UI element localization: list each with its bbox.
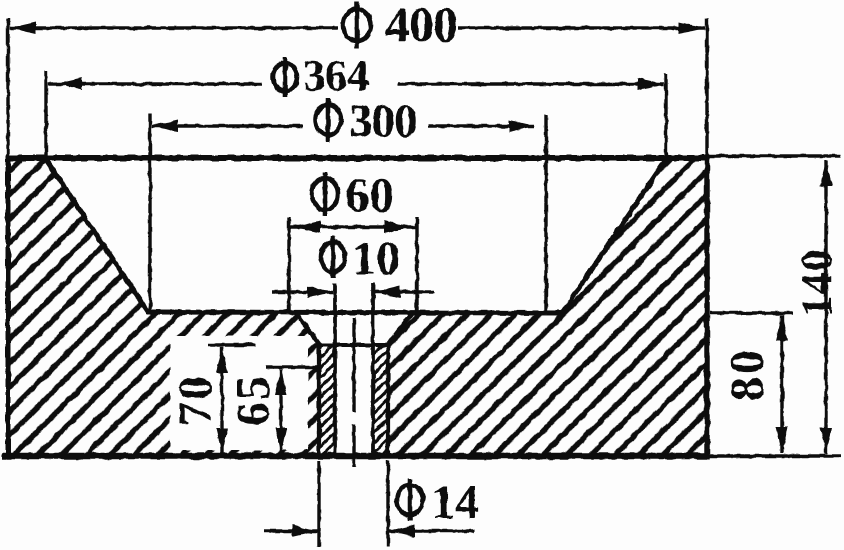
dimension line 140 [824,160,827,454]
bushing outer wall right (phi14 bore) [386,345,390,456]
label phi60 [312,178,338,210]
dimension line 70 [220,347,223,455]
arrowhead phi60 left [294,221,320,233]
counterbore funnel left slope [296,313,321,346]
dimension line 65 [279,369,282,455]
svg-text:300: 300 [349,95,417,147]
arrowhead phi364 right [638,78,664,90]
arrowhead phi10 left (points right) [307,286,333,298]
svg-text:60: 60 [345,167,394,222]
dimension line phi400 [10,26,338,29]
extension line 140/80 bottom (bottom surface extended) [707,454,841,457]
svg-text:65: 65 [227,374,280,426]
arrowhead 70 up [216,347,228,373]
arrowhead 140 up [820,160,832,186]
arrowhead 80 up [776,315,788,341]
label phi14 [397,485,423,515]
dimension line phi300 [152,124,303,127]
extension line phi364 right [664,73,667,158]
dimension line phi14 right part [389,529,474,532]
dimension line phi364 [48,82,262,85]
bushing outer wall left (phi14 bore) [317,345,321,456]
clearing around 70/65 dimensions [170,336,308,450]
svg-text:10: 10 [352,232,400,285]
cone wall right slope [562,158,667,313]
arrowhead phi400 right [679,22,705,34]
svg-text:14: 14 [431,476,479,529]
extension line phi60 right [415,217,418,313]
arrowhead phi14 right (points left) [389,525,415,537]
hatched cross-section left half [8,158,321,456]
extension line 140 top (top surface extended) [707,154,841,157]
svg-text:140: 140 [792,249,841,318]
arrowhead 65 down [275,428,287,454]
arrowhead phi364 left [56,78,82,90]
arrowhead phi10 right (points left) [374,286,400,298]
extension line phi60 left [287,217,290,313]
bushing top edge [318,343,389,347]
label phi10 [321,242,345,272]
reference tick for 70 [208,343,256,346]
cone floor (continuous across counterbore mouth) [146,312,564,313]
centerline upper segment [352,318,355,412]
arrowhead phi300 left [152,120,178,132]
svg-text:400: 400 [385,0,457,52]
svg-text:80: 80 [721,347,774,401]
svg-text:70: 70 [169,374,222,426]
dimension line phi14 left part [264,529,318,532]
dimension line phi10 right part [374,290,434,293]
extension line phi364 left [44,71,47,158]
part outline: top surface [6,155,707,161]
extension line phi400 right [705,18,708,158]
arrowhead phi300 right [509,120,535,132]
dimension line phi10 left part [272,290,333,293]
arrowhead 65 up [275,369,287,395]
centerline lower segment [352,424,355,467]
cone wall left slope [45,158,148,312]
bushing left wall dense hatch [320,346,334,456]
part outline: right edge [704,156,710,459]
dimension line phi60 [289,225,417,228]
label phi364 [273,63,297,91]
phi10 bore wall left / extension line [333,283,337,456]
label phi400 [343,9,371,41]
extension line phi14 right [386,461,389,547]
arrowhead 140 down [820,428,832,454]
label phi300 [315,105,341,135]
arrowhead 80 down [776,427,788,453]
extension line phi14 left [317,461,320,547]
svg-text:364: 364 [303,51,369,100]
extension line phi300 left [148,113,151,312]
extension line phi400 left [6,18,9,158]
arrowhead phi400 left [10,22,36,34]
arrowhead phi14 left (points right) [292,525,318,537]
counterbore funnel right slope [387,313,412,346]
bushing right wall dense hatch [374,346,387,456]
part outline: bottom surface [2,453,707,460]
extension line 80 top (cone floor extended) [710,311,793,314]
arrowhead phi60 right [384,221,410,233]
part outline: left edge [6,156,11,459]
hatched cross-section right half [388,158,707,456]
dimension line 80 [780,315,783,453]
extension line phi300 right [544,115,547,312]
reference tick for 65 [266,365,321,368]
phi10 bore wall right / extension line [371,283,375,456]
arrowhead 70 down [216,428,228,454]
